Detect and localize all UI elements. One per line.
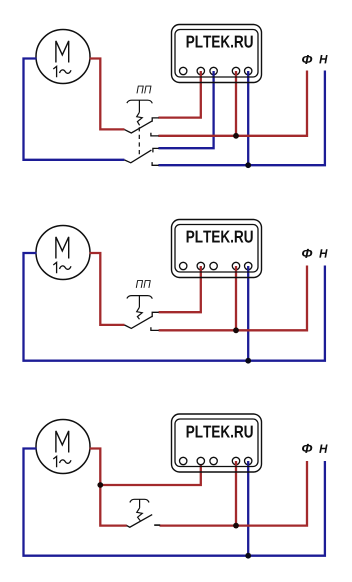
node F label xyxy=(302,444,312,453)
box U3 outer xyxy=(172,414,262,472)
switch SA1 pole A blade xyxy=(125,121,153,133)
box U2 outer xyxy=(172,220,262,278)
switch SA3 actuator zigzag xyxy=(137,508,143,521)
terminal T1 xyxy=(180,262,187,269)
wire red branch to T2 xyxy=(100,461,201,485)
switch SA1 coupling dashed link xyxy=(138,127,140,155)
wire blue M1 left to bottom to switch pole B common xyxy=(24,59,125,160)
motor M2 label 1 xyxy=(53,262,56,273)
switch SA1 actuator stem xyxy=(138,100,140,112)
junction dot phase/T4 xyxy=(233,133,239,139)
motor M2 label ~ xyxy=(60,266,72,269)
switch SA2 lower throw contact xyxy=(151,327,159,330)
switch SA2 actuator stem xyxy=(138,296,140,308)
box U2 inner xyxy=(175,225,258,273)
wire blue M3 left down along bottom to riser N xyxy=(24,449,325,556)
terminal T3 xyxy=(210,67,217,74)
motor M1 label ~ xyxy=(60,70,72,73)
junction dot neutral/T5 xyxy=(245,162,251,168)
switch SA1 pole B blade xyxy=(124,150,151,163)
wire red phase line from contact to riser F xyxy=(160,461,308,526)
switch SA3 actuator bracket xyxy=(130,499,149,502)
wire red M3 right down to switch xyxy=(90,449,127,526)
box U2 label PLTEK.RU xyxy=(187,231,253,243)
terminal T3 xyxy=(210,262,217,269)
wire blue T5 down to neutral line xyxy=(247,266,249,361)
wire blue neutral line from lower throw B2 to riser N xyxy=(158,71,325,166)
terminal T5 xyxy=(245,457,252,464)
motor M3 circle xyxy=(36,420,90,474)
terminal T4 xyxy=(232,457,239,464)
switch SA2 upper throw contact xyxy=(152,312,159,317)
junction dot branch xyxy=(97,482,103,488)
terminal T1 xyxy=(180,457,187,464)
switch SA1 label PP xyxy=(137,86,152,94)
junction dot phase/T4 xyxy=(233,327,239,333)
motor M3 label ~ xyxy=(60,460,72,463)
motor M1 label 1 xyxy=(53,66,56,77)
terminal T2 xyxy=(197,67,204,74)
switch SA1 pole A lower throw contact xyxy=(151,133,159,136)
terminal T5 xyxy=(245,67,252,74)
node N label xyxy=(319,249,327,257)
motor M1 circle xyxy=(36,30,90,84)
node N label xyxy=(319,445,327,453)
node N label xyxy=(319,55,327,63)
switch SA3 fixed contact xyxy=(154,524,160,526)
junction dot neutral/T5 xyxy=(245,553,251,559)
switch SA1 actuator bracket xyxy=(127,100,152,103)
switch SA2 actuator bracket xyxy=(127,296,152,299)
terminal T4 xyxy=(232,262,239,269)
wire red M2 right down to switch common xyxy=(90,253,125,325)
switch SA1 actuator zigzag xyxy=(137,112,143,125)
wire blue M2 left down along bottom to riser N xyxy=(24,253,325,361)
motor M2 circle xyxy=(36,226,90,280)
wire red T4 down to phase line xyxy=(235,266,237,330)
switch SA2 actuator zigzag xyxy=(137,307,143,319)
wire red M1 right down to switch pole A common xyxy=(90,59,125,130)
box U1 outer xyxy=(172,25,262,83)
node F label xyxy=(302,249,312,258)
motor M2 letter M xyxy=(56,237,69,259)
box U1 inner xyxy=(175,30,258,78)
switch SA2 label PP xyxy=(136,280,151,288)
terminal T2 xyxy=(197,262,204,269)
wire red T2 to switch upper throw xyxy=(159,266,201,312)
junction dot neutral/T5 xyxy=(245,358,251,364)
terminal T5 xyxy=(245,262,252,269)
wire red phase line from lower throw to riser F xyxy=(159,266,307,331)
wire red T4 down to phase line xyxy=(235,71,237,136)
wire blue T3 to switch upper throw B1 xyxy=(158,71,213,148)
switch SA2 blade xyxy=(125,316,153,328)
wire blue T5 down to neutral line xyxy=(247,461,249,556)
motor M3 label 1 xyxy=(53,456,56,467)
switch SA3 actuator stem xyxy=(139,500,141,508)
switch SA1 pole B lower throw contact xyxy=(152,162,159,165)
terminal T2 xyxy=(197,457,204,464)
switch SA1 pole A upper throw contact xyxy=(152,118,159,122)
terminal T1 xyxy=(180,67,187,74)
box U1 label PLTEK.RU xyxy=(187,36,253,48)
wire blue T5 down to neutral line xyxy=(247,71,249,165)
terminal T3 xyxy=(210,457,217,464)
box U3 inner xyxy=(175,419,258,467)
node F label xyxy=(302,55,312,64)
motor M3 letter M xyxy=(56,431,69,453)
wire red T4 down to phase line xyxy=(235,461,237,526)
terminal T4 xyxy=(232,67,239,74)
box U3 label PLTEK.RU xyxy=(187,426,253,438)
wire red phase line from lower throw A2 to riser F xyxy=(158,71,307,136)
junction dot phase/T4 xyxy=(233,523,239,529)
motor M1 letter M xyxy=(56,41,69,63)
switch SA3 blade open xyxy=(127,515,153,528)
wire red T2 to switch upper throw A1 xyxy=(158,71,200,118)
switch SA1 pole B upper throw contact xyxy=(153,148,159,152)
